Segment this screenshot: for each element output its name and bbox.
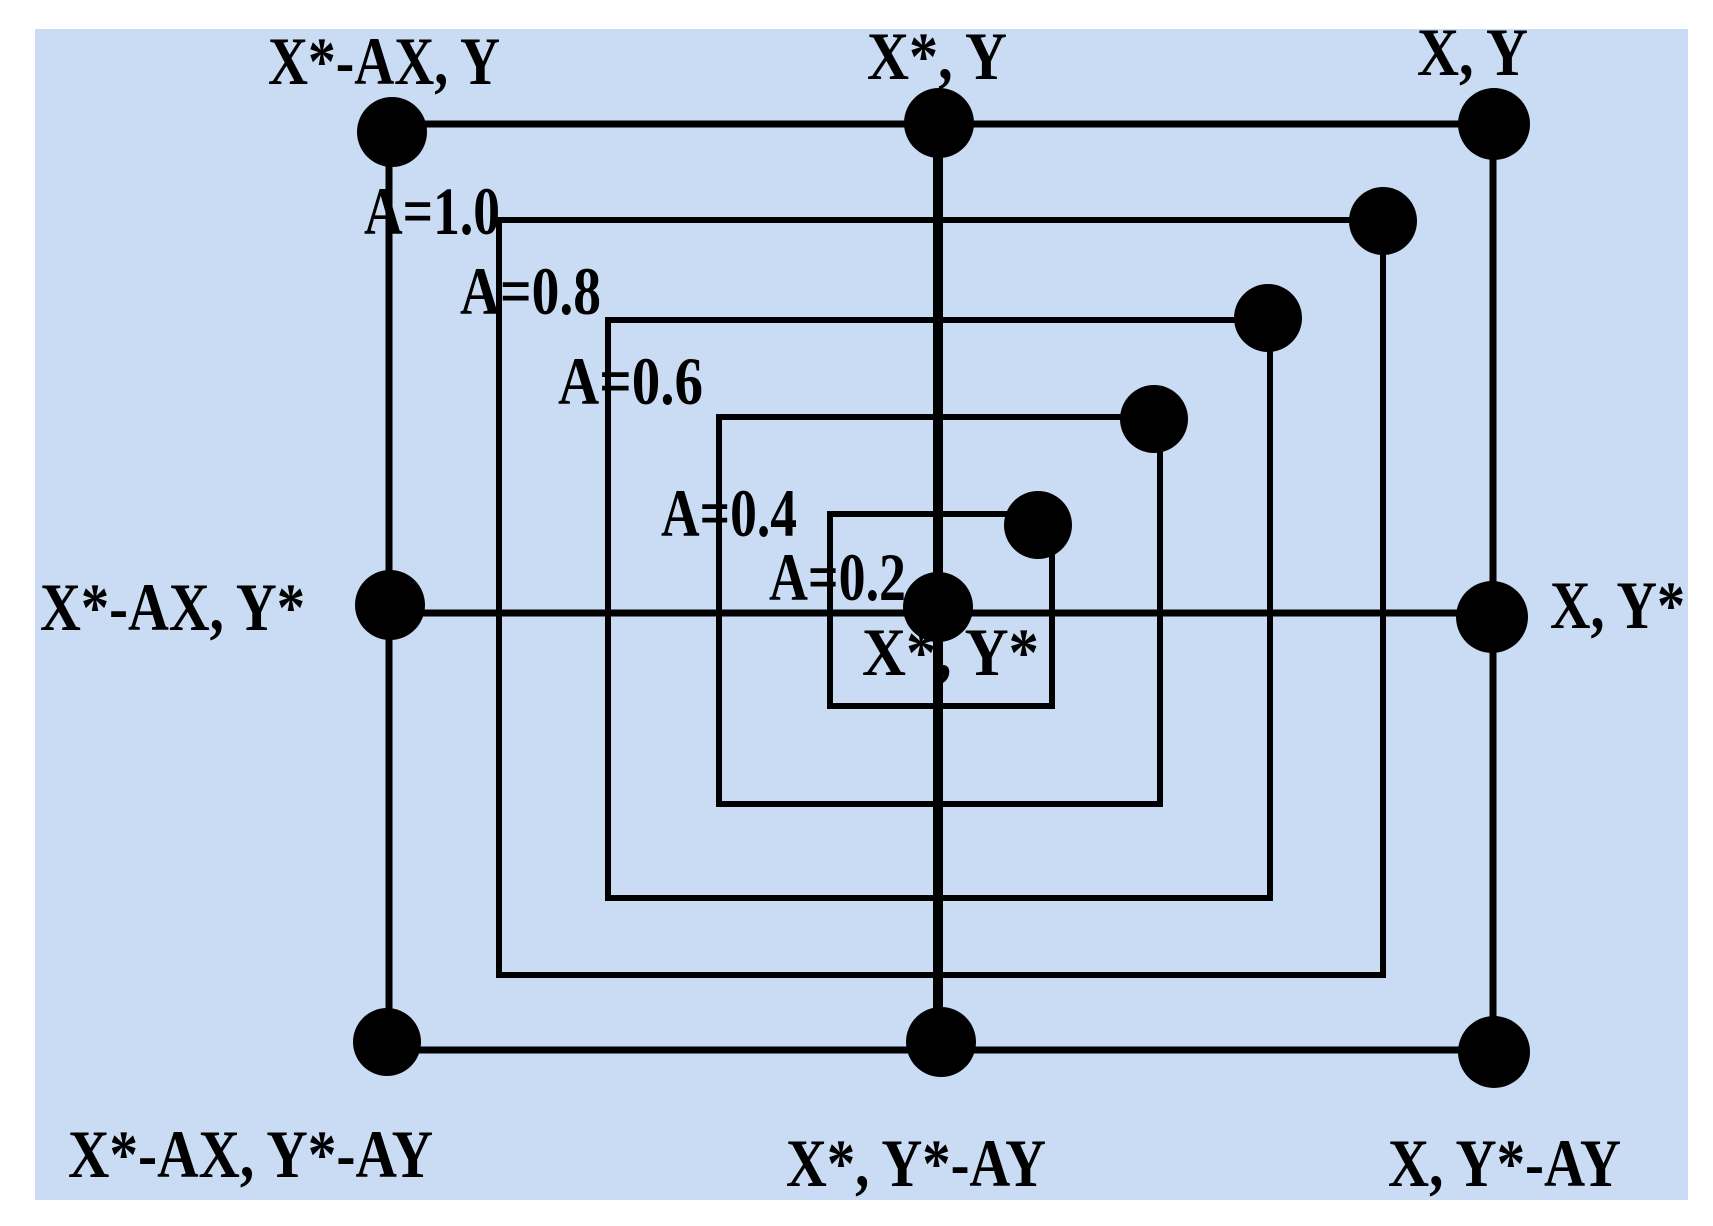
svg-text:X*, Y: X*, Y [867, 18, 1007, 94]
svg-text:A=0.8: A=0.8 [460, 253, 601, 329]
node X*, Y* (center) [903, 572, 973, 642]
rectangle A=0.4 [830, 514, 1052, 706]
node X, Y*-AY (bottom-right) [1458, 1016, 1530, 1088]
wire: outer square right edge [1490, 124, 1497, 1052]
svg-text:X*-AX, Y*: X*-AX, Y* [40, 569, 305, 645]
node corner A=0.8 [1234, 284, 1302, 352]
node corner A=0.6 [1120, 385, 1188, 453]
node X*, Y (top-middle) [904, 88, 974, 158]
svg-text:X, Y: X, Y [1417, 14, 1528, 90]
wire: outer square bottom edge [387, 1047, 1494, 1054]
rectangle A=0.6 [719, 417, 1160, 804]
node X, Y* (mid-right) [1456, 581, 1528, 653]
wire: outer square left edge [386, 124, 393, 1050]
svg-text:A=0.6: A=0.6 [558, 343, 703, 419]
node X*-AX, Y* (mid-left) [355, 570, 425, 640]
node corner A=1.0 [1349, 187, 1417, 255]
node X*, Y*-AY (bottom-middle) [906, 1007, 976, 1077]
svg-text:A=0.2: A=0.2 [769, 539, 906, 615]
svg-text:A=1.0: A=1.0 [364, 173, 500, 249]
svg-text:X*-AX, Y*-AY: X*-AX, Y*-AY [68, 1116, 433, 1192]
node X*-AX, Y*-AY (bottom-left) [353, 1008, 421, 1076]
wire: outer square top edge [390, 121, 1493, 128]
node X*-AX, Y (top-left) [357, 97, 427, 167]
svg-text:X*, Y*-AY: X*, Y*-AY [786, 1125, 1046, 1201]
svg-text:X*-AX, Y: X*-AX, Y [268, 23, 500, 99]
svg-text:X, Y*-AY: X, Y*-AY [1388, 1125, 1621, 1201]
wire: center vertical axis [933, 123, 943, 1050]
node corner A=0.4 [1004, 491, 1072, 559]
svg-text:X, Y*: X, Y* [1550, 567, 1685, 643]
wire: center horizontal axis [390, 610, 1492, 617]
rectangle A=0.8 [608, 320, 1270, 898]
svg-text:X*, Y*: X*, Y* [862, 614, 1039, 690]
node X, Y (top-right) [1458, 88, 1530, 160]
rectangle A=1.0 [499, 220, 1383, 975]
